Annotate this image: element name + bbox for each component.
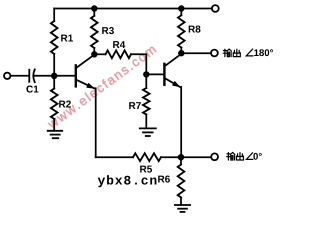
wire: R5 to node D	[161, 156, 181, 158]
node: top rail / R8 junction	[178, 5, 184, 11]
resistor R8	[178, 9, 185, 54]
wire: node IN to R2	[53, 76, 55, 89]
wire: C1 to node IN	[34, 75, 54, 77]
input terminal	[4, 73, 10, 79]
resistor R2	[51, 89, 58, 120]
label R1	[61, 35, 73, 42]
wire: top supply rail	[54, 8, 211, 10]
node: top rail / R3 junction	[91, 5, 97, 11]
transistor Q1	[54, 55, 95, 89]
wire: input terminal to C1	[11, 75, 29, 77]
wire: node D to output 0 terminal	[181, 156, 211, 158]
resistor R6	[178, 157, 185, 204]
label R7	[129, 102, 141, 109]
watermark www.elecfans.com	[46, 44, 156, 129]
label output 0 text	[227, 153, 244, 161]
wire: R1 bottom to node IN	[53, 54, 55, 76]
node C (Q2 collector / R8 / output 180)	[178, 50, 184, 56]
label R4	[113, 41, 125, 48]
resistor R7	[143, 74, 150, 127]
wire: Q2 emitter drop to node D	[180, 87, 182, 157]
transistor Q2	[146, 54, 181, 87]
label output 180 text	[223, 49, 240, 57]
node A (Q1 collector / R3 / R4)	[91, 51, 97, 57]
resistor R5	[133, 153, 161, 161]
node B (Q2 base / R4 / R7)	[143, 71, 149, 77]
wire: R4 to node B	[131, 54, 146, 74]
label R3	[102, 27, 114, 34]
wire: R2 bottom to ground	[53, 119, 55, 130]
label R2	[59, 101, 71, 108]
label R6	[158, 176, 170, 183]
wire: node C to output 180 terminal	[184, 52, 211, 54]
output terminal 0	[211, 153, 218, 160]
label R8	[189, 26, 201, 33]
capacitor C1	[29, 69, 35, 82]
output terminal 180	[211, 50, 218, 57]
supply terminal (top right)	[212, 5, 219, 12]
ground (below R6)	[175, 205, 190, 212]
wire: left rail drop from top rail to R1	[53, 9, 55, 22]
resistor R4	[106, 50, 132, 58]
ground (below R2)	[48, 131, 63, 138]
node D (R5 / R6 / Q2 emitter / output 0)	[178, 154, 184, 160]
wire: Q1 emitter drop to bottom rail	[95, 88, 97, 157]
watermark ybx8.cn	[98, 175, 157, 187]
wire: bottom rail from Q1 emitter to R5	[96, 156, 133, 158]
ground (below R7)	[140, 128, 156, 136]
label C1	[26, 86, 38, 93]
resistor R1	[51, 21, 58, 54]
node IN (junction R1/R2/C1/Q1 base)	[51, 73, 57, 79]
label R5	[140, 166, 152, 173]
wire: node A to R4	[94, 53, 105, 55]
resistor R3	[91, 9, 98, 55]
